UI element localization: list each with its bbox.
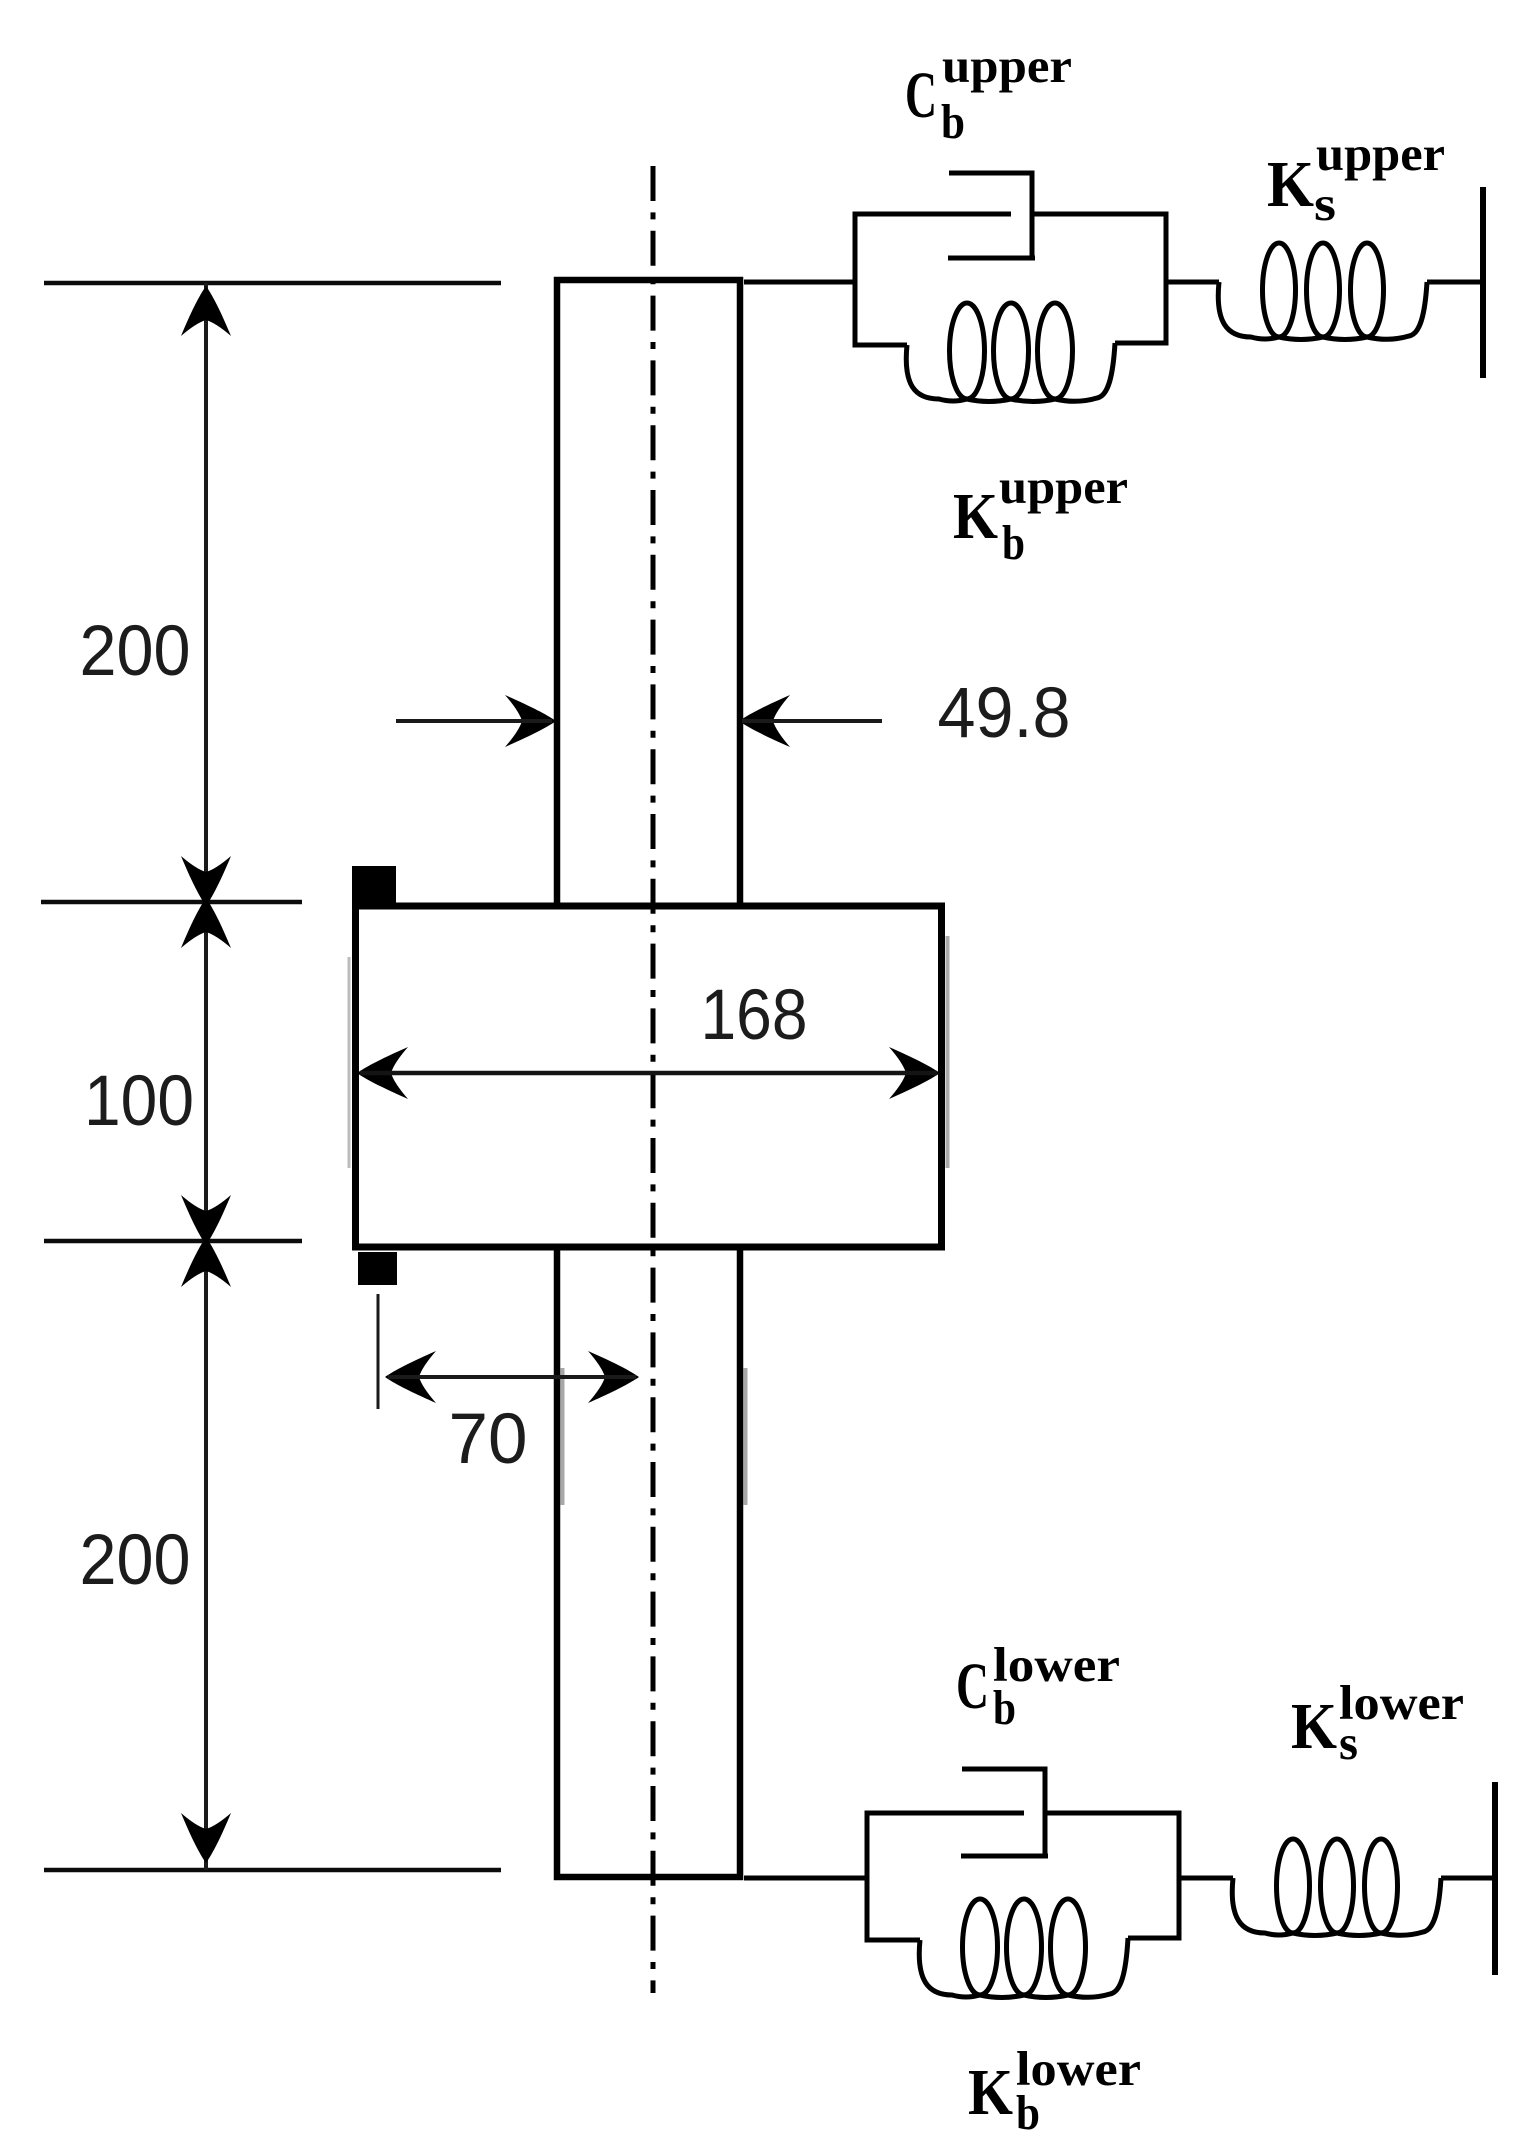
- svg-text:upper: upper: [942, 38, 1072, 93]
- svg-text:168: 168: [701, 976, 808, 1055]
- svg-text:s: s: [1314, 176, 1336, 231]
- svg-text:K: K: [953, 480, 998, 553]
- svg-text:b: b: [941, 94, 965, 149]
- svg-text:b: b: [1016, 2085, 1040, 2140]
- svg-text:b: b: [1002, 515, 1025, 570]
- svg-text:100: 100: [84, 1062, 194, 1141]
- svg-text:b: b: [993, 1680, 1016, 1735]
- svg-text:C: C: [956, 1650, 989, 1723]
- svg-text:200: 200: [80, 1521, 191, 1600]
- svg-text:K: K: [968, 2056, 1013, 2129]
- svg-text:K: K: [1267, 148, 1314, 221]
- svg-text:upper: upper: [1316, 126, 1445, 181]
- svg-text:49.8: 49.8: [938, 674, 1071, 753]
- svg-text:s: s: [1339, 1715, 1358, 1770]
- svg-text:70: 70: [449, 1400, 528, 1479]
- svg-text:C: C: [905, 59, 937, 132]
- svg-text:upper: upper: [999, 459, 1128, 514]
- svg-text:K: K: [1291, 1690, 1337, 1763]
- svg-text:200: 200: [80, 612, 191, 691]
